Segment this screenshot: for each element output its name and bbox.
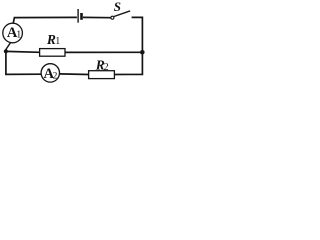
ammeter A2 bbox=[41, 64, 59, 82]
middle wire left node to R1 bbox=[6, 50, 40, 53]
svg-text:2: 2 bbox=[104, 62, 109, 73]
svg-text:S: S bbox=[114, 0, 121, 14]
svg-text:1: 1 bbox=[55, 36, 60, 47]
resistor R2 box bbox=[89, 71, 115, 79]
switch S pivot bbox=[111, 16, 114, 19]
switch S blade bbox=[114, 11, 130, 17]
resistor R1 box bbox=[40, 49, 65, 57]
wire from A1 top to battery bbox=[13, 17, 77, 23]
ammeter A1 bbox=[3, 23, 23, 43]
right vertical wire lower half bbox=[115, 52, 143, 74]
wire from switch to right corner bbox=[132, 17, 143, 52]
wire A1 bottom to left node bbox=[6, 42, 11, 51]
battery cell: long plate bbox=[77, 9, 79, 23]
svg-text:1: 1 bbox=[16, 30, 21, 41]
junction dot left node bbox=[4, 49, 8, 53]
left vertical wire bbox=[6, 51, 42, 74]
junction dot right node bbox=[140, 50, 145, 55]
svg-text:2: 2 bbox=[53, 72, 58, 82]
middle wire R1 to right node bbox=[65, 51, 140, 53]
bottom wire A2 to R2 bbox=[59, 73, 88, 76]
wire from battery to switch bbox=[83, 16, 111, 18]
battery cell: short thick plate bbox=[80, 13, 83, 20]
